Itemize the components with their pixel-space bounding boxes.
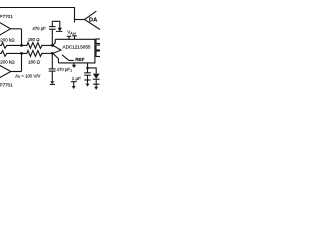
resistor R3 200k xyxy=(0,51,8,57)
ADC ref notch line xyxy=(62,55,74,61)
wire U2 output xyxy=(11,71,22,73)
pin DOUT stub xyxy=(72,35,77,37)
wire to DATA flag xyxy=(75,19,85,21)
ADC U3 outline xyxy=(55,39,95,63)
pin box 1 xyxy=(96,39,102,44)
wire REF node xyxy=(88,68,97,74)
ground below 1uF label xyxy=(71,81,77,83)
svg-text:P7701: P7701 xyxy=(0,14,13,19)
resistor R2 180 xyxy=(27,43,43,49)
wire U2 feedback vertical xyxy=(21,53,23,71)
svg-text:180 Ω: 180 Ω xyxy=(28,60,41,65)
ground arrow gnd pin xyxy=(72,65,76,68)
pin GND stub xyxy=(73,63,75,65)
svg-text:P7701: P7701 xyxy=(0,82,13,87)
svg-text:AV = 100 V/V: AV = 100 V/V xyxy=(15,74,40,80)
ADC left notch edge xyxy=(53,39,61,63)
svg-text:DA: DA xyxy=(89,18,98,24)
diode D1 cathode bar xyxy=(93,78,100,80)
ground D1 xyxy=(93,83,99,85)
diode D1 body xyxy=(93,74,100,79)
node junction ref xyxy=(86,67,89,70)
svg-text:VA: VA xyxy=(67,30,73,36)
svg-text:180 Ω: 180 Ω xyxy=(28,37,41,42)
ground arrow bar top xyxy=(56,31,62,32)
ground arrow top xyxy=(58,28,62,32)
ground arrow c2 xyxy=(50,81,54,84)
node junction row2 feedback xyxy=(20,52,23,55)
svg-text:ADC121S655: ADC121S655 xyxy=(63,44,92,49)
wire row1 to ADC xyxy=(43,44,52,46)
wire top rail xyxy=(0,8,75,23)
node junction row1 adc xyxy=(51,44,54,47)
node junction row1 feedback xyxy=(20,44,23,47)
svg-text:470 pF: 470 pF xyxy=(57,67,71,72)
wire row1 xyxy=(8,44,28,46)
resistor R1 200k xyxy=(0,43,8,49)
op-amp U1 xyxy=(0,22,11,37)
svg-text:470 pF: 470 pF xyxy=(32,26,46,31)
wire C1 to ground arrow xyxy=(52,21,60,28)
capacitor C1 470pF xyxy=(51,29,53,45)
ground arrow c3 xyxy=(86,84,90,87)
wire U1 feedback vertical xyxy=(21,29,23,46)
wire U1 output xyxy=(11,28,22,30)
resistor R4 180 xyxy=(27,51,43,57)
ground C3 xyxy=(84,79,90,81)
ground arrow d1 xyxy=(94,87,98,90)
capacitor C3 1uF xyxy=(87,68,89,73)
svg-text:2: 2 xyxy=(70,68,72,72)
node junction row2 adc xyxy=(51,52,54,55)
pin VA stub xyxy=(67,35,71,37)
pin box 2 xyxy=(96,45,102,50)
pin REF stub xyxy=(87,63,89,68)
pin box 3 xyxy=(96,51,102,57)
svg-text:REF: REF xyxy=(75,57,84,62)
op-amp U2 xyxy=(0,65,11,79)
svg-text:14: 14 xyxy=(73,32,77,36)
wire row2 xyxy=(8,52,28,54)
capacitor C2 ground bar xyxy=(50,83,55,85)
node DATA flag xyxy=(85,11,101,29)
ground arrow mid xyxy=(72,86,76,89)
svg-text:200 kΩ: 200 kΩ xyxy=(0,59,15,64)
svg-text:1 µF: 1 µF xyxy=(72,76,81,81)
svg-text:200 kΩ: 200 kΩ xyxy=(0,37,15,42)
capacitor C2 470pF xyxy=(51,53,53,68)
wire row2 to ADC xyxy=(43,52,52,54)
